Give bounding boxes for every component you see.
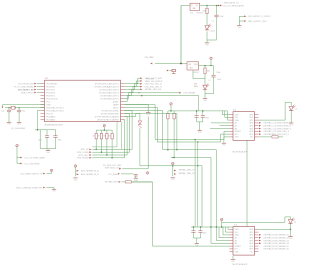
capacitor C3: [38, 130, 49, 149]
resistor R4: [98, 133, 103, 139]
svg-text:GP6: GP6: [249, 131, 253, 133]
junction VIN rail: [180, 63, 182, 65]
net row3 label: [105, 181, 121, 184]
U1 pin stubs: [41, 84, 125, 120]
wire cap pair taps IC3: [196, 110, 204, 115]
svg-text:A2: A2: [235, 122, 237, 125]
wire R11 right: [132, 181, 153, 183]
svg-text:A1: A1: [235, 239, 237, 242]
svg-text:GP5: GP5: [249, 243, 253, 245]
svg-text:XBEE_DOUT_BUF: XBEE_DOUT_BUF: [145, 78, 163, 80]
label IC4 value: [233, 264, 248, 266]
wire VCC rail mid: [168, 110, 228, 112]
svg-text:GP0: GP0: [249, 229, 253, 231]
wire IC2 ground tab: [193, 70, 205, 78]
svg-text:SERIAL_MUX_EN: SERIAL_MUX_EN: [145, 88, 162, 91]
svg-text:100n: 100n: [38, 140, 42, 142]
svg-text:SERIAL_DBG_RX: SERIAL_DBG_RX: [179, 172, 196, 175]
wire IC4 row1 to LED4: [259, 229, 292, 231]
solder jumper SJ1: [146, 69, 175, 80]
svg-text:MISO_PROG: MISO_PROG: [21, 92, 34, 94]
wire VIN to IC2: [155, 63, 187, 65]
wire to resistor R7: [147, 101, 149, 103]
svg-text:SERIAL_DBG_TX: SERIAL_DBG_TX: [179, 169, 196, 172]
svg-text:PD1/TXD: PD1/TXD: [46, 89, 55, 91]
svg-text:GP7: GP7: [249, 134, 253, 136]
resistor R8 pullup: [167, 111, 169, 151]
ground CN1: [73, 178, 78, 181]
wire VIN to IC1 and long vertical rail: [181, 6, 190, 64]
label IC4 name: [234, 225, 238, 227]
svg-text:KEYPAD_COLUMN_DRIVE_2: KEYPAD_COLUMN_DRIVE_2: [264, 125, 292, 128]
wire LED1 to ground: [207, 17, 217, 43]
svg-text:I2C_SDA: I2C_SDA: [109, 173, 118, 176]
svg-text:MCP23008-E/P: MCP23008-E/P: [233, 152, 248, 154]
ground below LED1: [205, 43, 210, 46]
svg-text:(PCINT13/SCL/ADC5)PC5: (PCINT13/SCL/ADC5)PC5: [95, 82, 120, 85]
wire XTAL1: [2, 105, 45, 109]
wire LED3 top loop: [285, 102, 291, 120]
wire to ground reg2: [204, 94, 206, 99]
wire cap pair bottom: [197, 122, 203, 130]
svg-text:KEYPAD_ROW_SENSE_01: KEYPAD_ROW_SENSE_01: [264, 234, 290, 237]
svg-text:SCL: SCL: [235, 232, 239, 234]
net arrow VCC row1: [17, 156, 45, 159]
net arrow VIN: [244, 15, 246, 17]
ground caps: [46, 151, 51, 154]
capacitor C5: [195, 116, 199, 122]
svg-text:RX_FROM_USB: RX_FROM_USB: [19, 83, 35, 85]
junction at regulator output: [206, 5, 217, 6]
supply symbol 5V bottom left: [16, 144, 19, 163]
svg-text:USB_RXD_LED_N: USB_RXD_LED_N: [145, 86, 163, 88]
wire after R10: [278, 136, 283, 138]
supply circle right of row2: [146, 172, 149, 175]
svg-text:VDD: VDD: [235, 114, 240, 116]
svg-text:XBEE_DIN_BUFFR: XBEE_DIN_BUFFR: [145, 81, 163, 83]
resistor R1: [202, 8, 208, 14]
svg-text:VCC: VCC: [46, 101, 51, 103]
wire to resistor R1: [206, 6, 208, 9]
wire XTAL2: [5, 107, 45, 109]
svg-text:A0: A0: [235, 127, 237, 130]
label IC2: [193, 72, 199, 74]
capacitor tiny row2: [134, 174, 138, 178]
IC4 right net labels: [259, 234, 290, 251]
label IC3 value: [233, 152, 248, 154]
net row to supply circle: [20, 172, 51, 175]
svg-text:VDD: VDD: [235, 229, 240, 231]
resistor R7 feed: [124, 98, 126, 100]
net row1 two line label: [103, 165, 122, 169]
svg-text:PB6/XTAL1/TOSC1: PB6/XTAL1/TOSC1: [46, 106, 64, 109]
ground on p8 drop: [146, 113, 151, 116]
ground LED3: [289, 123, 294, 126]
supply circle CN2: [172, 162, 175, 176]
voltage regulator IC1 7805 box: [190, 3, 200, 10]
svg-text:C1: C1: [212, 21, 214, 23]
svg-text:L2: L2: [209, 80, 211, 82]
svg-text:A0: A0: [235, 242, 237, 245]
U1 left net labels: [14, 83, 41, 95]
net label VIN left: [145, 56, 154, 59]
ground IC3 VSS: [222, 143, 227, 146]
net label GNDIN: [248, 21, 268, 23]
ground LED4: [288, 237, 293, 240]
svg-text:GP6: GP6: [249, 246, 253, 248]
resistor R3: [93, 133, 98, 139]
label U1 value: [45, 123, 64, 126]
ground CX1: [7, 122, 12, 125]
svg-text:22p: 22p: [22, 110, 25, 112]
svg-text:KEYPAD_ROW_SENSE_04: KEYPAD_ROW_SENSE_04: [264, 242, 290, 245]
svg-text:PD5/T1: PD5/T1: [46, 113, 54, 115]
wire IC3 bottom to IC4 top: [246, 140, 248, 226]
svg-text:100n: 100n: [216, 72, 220, 74]
svg-text:PWR_INPUT_5V: PWR_INPUT_5V: [224, 3, 240, 5]
wire B to IC3: [125, 108, 230, 143]
stub rows IC3 left: [210, 123, 229, 129]
capacitor CX2: [17, 110, 25, 122]
svg-text:VCC_3V3_FEED: VCC_3V3_FEED: [24, 163, 40, 165]
svg-text:GP4: GP4: [249, 240, 253, 242]
wire R1 to LED1: [206, 14, 208, 25]
svg-text:DTR_RESET_EN: DTR_RESET_EN: [18, 89, 34, 91]
svg-text:A1: A1: [235, 125, 237, 128]
svg-text:(PCINT8/ADC0)PC0: (PCINT8/ADC0)PC0: [100, 97, 119, 100]
extra harness strands: [92, 122, 121, 149]
svg-text:PC6/RESET: PC6/RESET: [46, 83, 58, 85]
wire IC2 output: [199, 65, 214, 67]
svg-text:GP2: GP2: [249, 235, 253, 237]
svg-text:RESET: RESET: [235, 246, 242, 248]
net row to ground: [16, 186, 54, 189]
wire VCC233 wire right: [222, 221, 285, 223]
supply circle small: [50, 169, 53, 172]
button row nets to U1: [77, 111, 132, 160]
svg-text:PD0/RXD: PD0/RXD: [46, 86, 55, 88]
svg-text:BTN_LEFT: BTN_LEFT: [79, 155, 90, 157]
wire IC3 row to LED3: [259, 119, 286, 121]
svg-text:(PCINT2/SS/OC1B)PB2: (PCINT2/SS/OC1B)PB2: [97, 119, 119, 121]
svg-text:PD4/T0/XCK: PD4/T0/XCK: [46, 98, 58, 100]
svg-text:330: 330: [207, 71, 210, 73]
wire cap CX2 tap: [19, 107, 20, 110]
U1 right net label rows: [125, 77, 163, 95]
svg-text:GP3: GP3: [249, 238, 253, 240]
U1 pin labels: [46, 82, 119, 121]
label near IC2 gnd: [194, 84, 198, 89]
svg-text:(PCINT12/SDA/ADC4)PC4: (PCINT12/SDA/ADC4)PC4: [95, 85, 120, 88]
resistor R6: [108, 133, 113, 139]
ground bottom left: [52, 189, 57, 192]
port expander IC4 box: [233, 227, 255, 256]
wire A to IC3: [125, 105, 230, 140]
svg-text:100n: 100n: [205, 118, 209, 120]
wire hub to IC4 pins: [211, 227, 229, 243]
svg-text:AREF: AREF: [113, 103, 119, 106]
ground IC4: [231, 256, 236, 263]
svg-text:VCC_5V_FEED_MAIN: VCC_5V_FEED_MAIN: [24, 156, 45, 159]
svg-text:L4: L4: [294, 222, 296, 224]
svg-text:AGND: AGND: [113, 100, 119, 103]
net arrow VCC row2: [17, 163, 40, 166]
svg-text:SCL: SCL: [235, 117, 239, 119]
svg-text:KEYPAD_ROW_SENSE_05: KEYPAD_ROW_SENSE_05: [264, 245, 290, 248]
svg-text:MCP23008-E/P: MCP23008-E/P: [233, 264, 248, 266]
wire LED2 cap common: [205, 93, 214, 95]
svg-text:TX_TO_USB_SERIAL: TX_TO_USB_SERIAL: [14, 85, 35, 88]
wire B branch down: [197, 141, 198, 227]
LED LED3: [289, 105, 297, 111]
IC4 pin stubs: [229, 229, 258, 251]
IC3 pin stubs: [229, 115, 258, 137]
svg-text:KEYPAD_COLUMN_DRV_5: KEYPAD_COLUMN_DRV_5: [264, 133, 290, 136]
supply symbol VCC33 top: [210, 57, 213, 65]
svg-text:BTN_UP: BTN_UP: [81, 149, 90, 151]
svg-text:GP7: GP7: [249, 249, 253, 251]
supply symbol above resistor bank: [103, 124, 106, 130]
junction left rail: [37, 129, 39, 131]
LED LED2 3v3 indicator: [203, 80, 211, 90]
ground CN2: [171, 178, 176, 181]
wire IC1 output: [200, 5, 218, 7]
ground row2: [134, 178, 139, 182]
svg-text:GP2: GP2: [249, 120, 253, 122]
net label VIN DC: [248, 16, 271, 18]
svg-text:PD2/INT0: PD2/INT0: [46, 92, 56, 94]
wire row1 to drop wire: [122, 168, 148, 170]
LED LED1 power indicator: [205, 24, 215, 33]
svg-text:22p: 22p: [1, 110, 4, 112]
capacitor CX1: [1, 110, 11, 122]
svg-text:GND_COMMON_STAR_PNT: GND_COMMON_STAR_PNT: [16, 186, 43, 189]
svg-text:KEYPAD_ROW_SENSE_02: KEYPAD_ROW_SENSE_02: [264, 237, 290, 240]
svg-text:KEYPAD_COLUMN_DRV_4: KEYPAD_COLUMN_DRV_4: [264, 130, 290, 133]
svg-text:VCC_5V_REGULATED: VCC_5V_REGULATED: [223, 4, 245, 7]
ground caps IC4: [195, 244, 200, 247]
svg-text:AVCC: AVCC: [113, 106, 119, 109]
supply symbol above pullups: [170, 103, 173, 111]
net arrow VIN feed: [150, 63, 152, 65]
svg-text:GP5: GP5: [249, 128, 253, 130]
junction IC2 output: [204, 65, 211, 66]
svg-text:330: 330: [202, 11, 205, 13]
IC3 pin labels: [235, 114, 254, 138]
svg-text:KEYPAD_ROW_SENSE_03: KEYPAD_ROW_SENSE_03: [264, 239, 290, 242]
svg-text:(PCINT3/MOSI/OC2A)PB3: (PCINT3/MOSI/OC2A)PB3: [95, 115, 120, 118]
wire A branch down: [194, 139, 195, 227]
svg-text:GND_SUPPLY_RET: GND_SUPPLY_RET: [248, 21, 268, 23]
svg-text:Q1_16.000MHZ: Q1_16.000MHZ: [11, 128, 26, 130]
capacitor C1: [212, 6, 225, 23]
svg-text:7805DT: 7805DT: [196, 13, 204, 15]
wire cap taps IC4: [193, 226, 202, 230]
svg-text:KEYPAD_ROW_SENSE_06: KEYPAD_ROW_SENSE_06: [264, 248, 290, 251]
svg-text:(PCINT4/MISO)PB4: (PCINT4/MISO)PB4: [101, 113, 120, 115]
IC4 pin labels: [235, 229, 254, 253]
supply circle CN1: [74, 165, 77, 177]
wire E long: [125, 114, 178, 151]
capacitor C6: [201, 116, 209, 122]
svg-text:GP1: GP1: [249, 232, 253, 234]
capacitor C2: [211, 66, 222, 94]
voltage regulator IC2 box: [187, 62, 199, 70]
svg-text:(PCINT10/ADC2)PC2: (PCINT10/ADC2)PC2: [99, 91, 119, 94]
svg-text:VIN_RAW: VIN_RAW: [145, 56, 154, 59]
IC3 VSS wire to ground: [224, 137, 230, 143]
ground input header: [237, 26, 242, 29]
wire gnd drop to row1: [147, 116, 149, 168]
svg-text:BTN_RIGHT: BTN_RIGHT: [77, 158, 89, 160]
net row2 label: [109, 173, 134, 176]
wire LED2 down: [204, 90, 206, 94]
label IC1 7805: [190, 13, 204, 15]
capacitor C4: [53, 130, 61, 149]
crystal Q1: [11, 106, 16, 109]
label crystal: [11, 128, 26, 130]
keypad row net wire: [132, 182, 230, 246]
svg-text:green: green: [210, 30, 215, 33]
resistor R2: [204, 68, 210, 74]
svg-text:100n: 100n: [203, 233, 207, 235]
wire caps bottom IC4: [194, 238, 201, 243]
svg-text:GP1: GP1: [249, 117, 253, 119]
svg-text:(PCINT5/SCK)PB5: (PCINT5/SCK)PB5: [102, 110, 120, 112]
diode D1 feed: [125, 113, 140, 120]
ground below LED2: [203, 99, 208, 102]
connector CN2 pins: [174, 169, 196, 176]
port expander IC3 box: [233, 112, 255, 141]
svg-text:VIN_SUPPLY_9_12VDC: VIN_SUPPLY_9_12VDC: [248, 16, 271, 18]
wires rail to resistors: [96, 129, 112, 133]
wire LED4 to ground: [290, 224, 292, 237]
svg-text:A2: A2: [235, 237, 237, 240]
wire input header: [239, 16, 244, 25]
net arrow mid SCL: [125, 95, 199, 111]
svg-text:DTR_RESET: DTR_RESET: [184, 93, 197, 95]
svg-text:ATMEGA168-20PU: ATMEGA168-20PU: [45, 123, 64, 126]
svg-text:VCC_RAW_SUPPLY_IN: VCC_RAW_SUPPLY_IN: [20, 172, 42, 175]
svg-text:LD1117: LD1117: [193, 72, 199, 74]
IC3 right net labels: [259, 122, 292, 136]
label IC3 name: [233, 110, 237, 112]
resistor R9 pullup: [171, 111, 175, 158]
wire IC3 resistor row: [259, 136, 272, 138]
svg-text:GP4: GP4: [249, 126, 253, 128]
svg-text:BTN_DOWN: BTN_DOWN: [77, 152, 89, 154]
svg-text:RESET: RESET: [235, 131, 242, 133]
svg-text:KEYPAD_COLUMN_DRIVE_3: KEYPAD_COLUMN_DRIVE_3: [264, 127, 292, 130]
wire left cap rail: [35, 130, 56, 149]
wire LED3 to ground: [290, 111, 292, 123]
wires resistors to rows: [95, 139, 112, 159]
supply symbol VCC IC4: [220, 218, 223, 227]
svg-text:L3: L3: [295, 109, 297, 111]
wire R2 to LED2: [204, 74, 206, 85]
svg-text:100n: 100n: [58, 140, 62, 142]
wire resistor bank rail: [96, 129, 112, 131]
svg-text:AUX_SENSE_IN_A: AUX_SENSE_IN_A: [81, 170, 99, 173]
resistor R11 horizontal: [121, 181, 131, 183]
svg-text:KEYPAD_COLUMN_DRIVE_1: KEYPAD_COLUMN_DRIVE_1: [264, 122, 292, 125]
resistor R10: [272, 134, 278, 138]
svg-text:PD6/AIN0: PD6/AIN0: [46, 115, 56, 118]
net arrow VCC5V: [218, 5, 222, 7]
svg-text:KEYPAD_NET: KEYPAD_NET: [105, 181, 119, 184]
diode D1 down wire: [140, 128, 202, 227]
diode D1: [138, 121, 142, 128]
svg-text:PD3/INT1: PD3/INT1: [46, 95, 56, 97]
wire hub rail: [191, 226, 233, 228]
svg-text:PB7/XTAL2/TOSC2: PB7/XTAL2/TOSC2: [46, 109, 64, 112]
svg-text:VOUT: VOUT: [194, 64, 198, 66]
label U1 name: [45, 78, 49, 80]
svg-text:GND: GND: [46, 104, 51, 106]
wire U1 gnd tap: [38, 111, 41, 130]
ground cap pair: [198, 131, 203, 134]
svg-text:PD7/AIN1: PD7/AIN1: [46, 118, 56, 121]
microcontroller U1 box: [45, 80, 121, 122]
wire LED4 top loop: [285, 217, 291, 223]
svg-text:(PCINT11/ADC3)PC3: (PCINT11/ADC3)PC3: [99, 88, 119, 91]
connector CN1 pins: [77, 170, 100, 177]
wire p8 drop: [125, 105, 149, 113]
wire cap CX1 tap: [8, 107, 9, 110]
net label +5V supply: [223, 3, 245, 8]
capacitor C8: [198, 231, 206, 238]
wire SDA branch: [124, 113, 126, 115]
wires VCC rail to IC3 pins: [222, 111, 229, 120]
ground CX2: [17, 122, 22, 125]
net arrow GND in: [244, 20, 246, 22]
svg-text:(PCINT9/ADC1)PC1: (PCINT9/ADC1)PC1: [100, 94, 119, 97]
wire bottom cap rail: [40, 149, 56, 151]
svg-text:GP0: GP0: [249, 114, 253, 116]
reset net row: [125, 92, 197, 99]
capacitor C7: [191, 231, 195, 238]
svg-text:AUX_SENSE_IN_B: AUX_SENSE_IN_B: [81, 173, 99, 176]
svg-text:(EXP_BUS_CLK): (EXP_BUS_CLK): [105, 167, 121, 169]
wire to resistor R2: [204, 66, 206, 69]
resistor R5: [103, 133, 108, 139]
svg-text:USB_TXD_LED_N: USB_TXD_LED_N: [145, 84, 162, 86]
svg-text:GP3: GP3: [249, 123, 253, 125]
wire D to hub: [171, 158, 211, 228]
LED LED4: [288, 218, 296, 224]
net arrow row1: [119, 168, 121, 170]
wire C to hub: [125, 111, 217, 228]
